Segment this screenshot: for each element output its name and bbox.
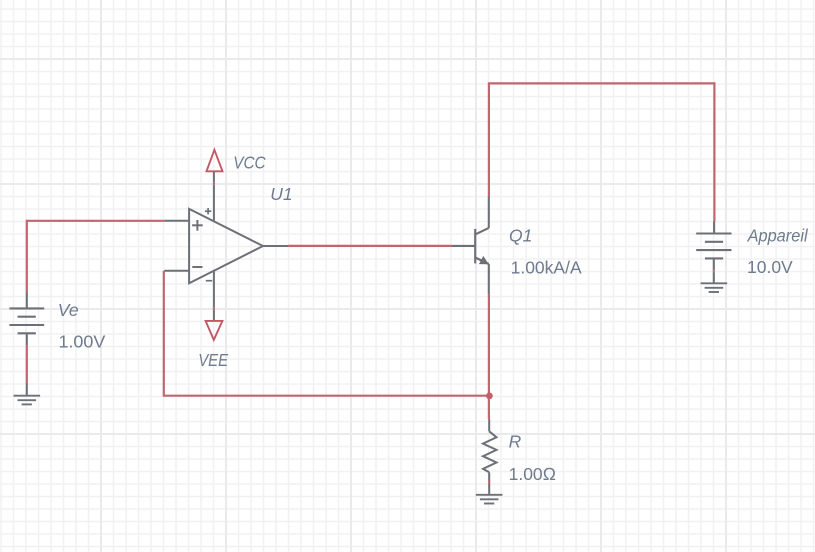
svg-text:Ve: Ve bbox=[58, 300, 79, 320]
svg-text:Appareil: Appareil bbox=[747, 225, 809, 245]
svg-text:10.0V: 10.0V bbox=[747, 257, 793, 277]
svg-text:U1: U1 bbox=[270, 184, 292, 204]
svg-text:VEE: VEE bbox=[198, 350, 228, 370]
svg-text:R: R bbox=[509, 432, 522, 452]
svg-text:1.00V: 1.00V bbox=[59, 332, 106, 352]
svg-text:Q1: Q1 bbox=[509, 226, 532, 246]
svg-text:1.00kA/A: 1.00kA/A bbox=[511, 258, 582, 278]
svg-text:1.00Ω: 1.00Ω bbox=[509, 464, 557, 484]
svg-text:VCC: VCC bbox=[233, 153, 266, 173]
